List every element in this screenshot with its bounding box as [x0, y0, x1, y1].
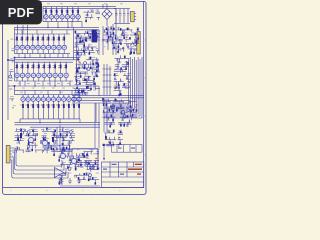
- PDF badge: [0, 0, 42, 24]
- bus wires above row C: [15, 54, 81, 81]
- bottom cluster frame wires: [56, 149, 100, 186]
- circuit cluster lowerleft: [12, 128, 75, 156]
- U1 pin wires: [89, 31, 101, 40]
- transistor Q21: [71, 158, 76, 163]
- capacitor C40: [112, 104, 115, 115]
- J1 pins: [134, 13, 136, 19]
- transistor array row B: [15, 30, 71, 54]
- long bus wires center: [15, 96, 144, 128]
- yellow connector J3 left: [6, 145, 10, 163]
- title block text marks: [103, 164, 124, 175]
- resistor R50: [20, 133, 22, 138]
- circuit cluster right-mid: [113, 55, 132, 96]
- small revision table: [104, 145, 142, 158]
- zone numerals bottom: [10, 189, 120, 192]
- yellow connector J1: [131, 11, 135, 21]
- junction square: [103, 144, 105, 146]
- vertical ladder component block: [103, 64, 112, 95]
- border zone ticks bottom: [20, 193, 128, 195]
- sub-circuit outline box: [72, 149, 98, 163]
- circuit cluster right-low2: [104, 130, 123, 148]
- svg-text:PDF: PDF: [8, 5, 35, 20]
- circuit cluster bottom-center: [58, 149, 100, 185]
- designator text band: [17, 128, 74, 131]
- sheet inner border bottom: [3, 187, 144, 189]
- capacitor bank: [114, 9, 131, 24]
- ground symbols: [59, 178, 81, 184]
- transistor Q23: [42, 140, 47, 145]
- title block table: [102, 162, 144, 188]
- bottom-left routed wire bundle: [12, 148, 68, 178]
- sheet outer border: [3, 1, 146, 194]
- vertical drops to bottom cluster: [57, 103, 99, 152]
- wire arrowhead: [103, 158, 105, 160]
- J3 pins: [10, 148, 12, 160]
- circuit cluster center B: [74, 69, 100, 95]
- row B baseline stubs: [19, 54, 68, 58]
- transistor array row A: [43, 7, 82, 27]
- IC U1 filled block: [92, 29, 98, 42]
- circuit cluster left-mid-margin: [9, 39, 16, 108]
- capacitor C41: [120, 104, 123, 115]
- border zone ticks right: [144, 40, 146, 155]
- center vertical trunk wires: [74, 8, 117, 84]
- J2 pins: [135, 34, 137, 50]
- transistor Q22: [28, 137, 33, 142]
- transistor Q20: [60, 153, 65, 158]
- bus wires between rows C and D: [15, 81, 100, 96]
- transistor array row D: [20, 95, 82, 123]
- sheet inner border right: [143, 2, 145, 188]
- diode D10: [127, 108, 131, 112]
- title block red text: [128, 164, 142, 175]
- vertical drops right of row D: [96, 98, 107, 132]
- bus wires above row B: [15, 21, 100, 55]
- circuit cluster center A: [73, 30, 99, 73]
- resistor R51: [52, 137, 54, 142]
- right vertical wire bundle: [104, 57, 142, 118]
- transistor array row C: [15, 62, 74, 95]
- top power bus wires: [43, 4, 116, 22]
- circuit cluster center-top: [84, 9, 101, 22]
- top margin text marks: [47, 2, 123, 5]
- op-amp triangle: [55, 168, 64, 178]
- circuit cluster mid-right-low: [102, 98, 137, 128]
- circuit cluster right-top: [102, 27, 139, 55]
- left rail wires below badge: [7, 25, 27, 120]
- row C baseline stubs: [25, 81, 72, 95]
- bridge rectifier: [102, 4, 112, 26]
- text dashes band y83-93: [18, 83, 75, 92]
- junction dots: [24, 27, 68, 124]
- yellow connector J2: [137, 32, 140, 55]
- tiny text in revision table: [118, 147, 135, 150]
